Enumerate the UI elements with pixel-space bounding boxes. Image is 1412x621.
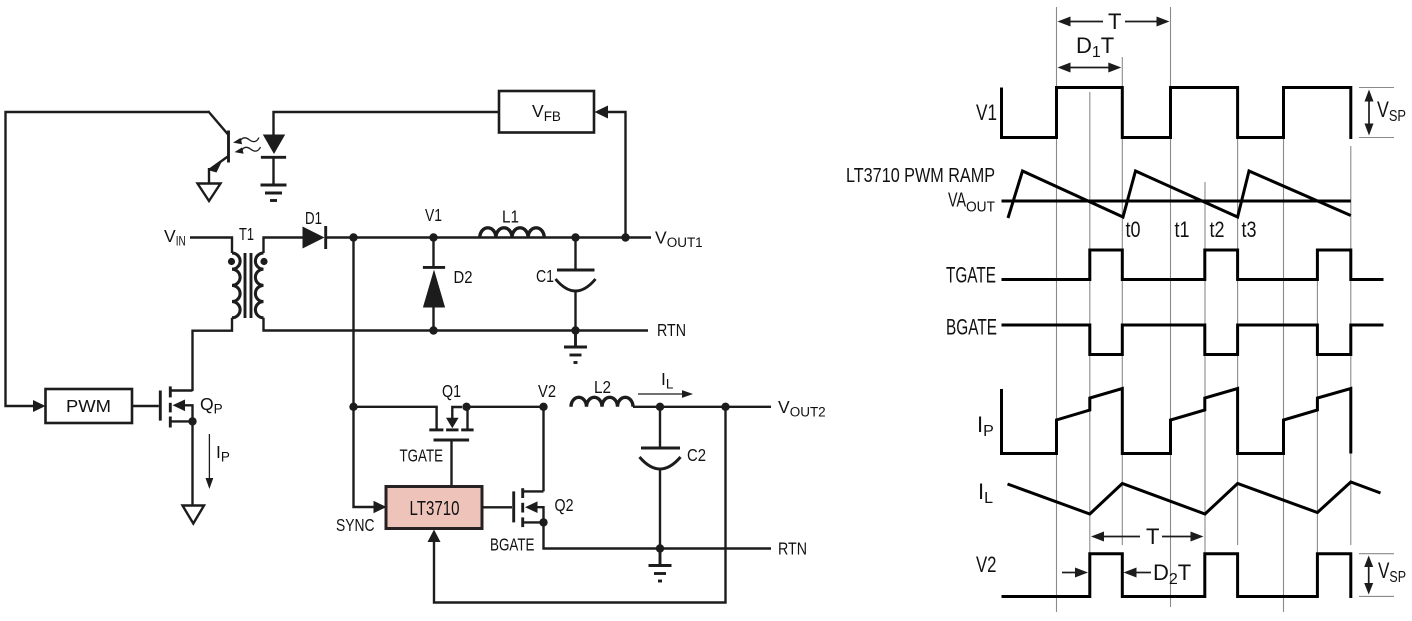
svg-text:V2: V2 [538,381,556,401]
wire LT3710 BGATE to Q2 gate [482,506,512,508]
svg-text:t1: t1 [1175,217,1190,242]
wire L2 to VOUT2 [633,406,771,408]
node Q2 source [539,518,547,526]
ground (bars) at LED cathode [261,185,287,201]
node D2 anode on RTN [429,326,437,334]
T1 core [244,253,247,318]
svg-text:D2: D2 [454,267,473,287]
LED D (opto diode) [261,135,286,185]
node V2 [539,403,547,411]
node VOUT2 sense [721,403,729,411]
diode D1 [303,226,326,249]
waveform VAOUT level line [1002,200,1351,203]
ground at C1 [564,331,587,363]
annotation arrow D1T (duty) [1058,33,1122,73]
transformer T1 [228,253,268,318]
transistor Qp (N-MOSFET) [160,386,192,427]
T1 primary winding [232,253,240,318]
ground (open triangle) at Qp [183,506,205,524]
svg-text:C2: C2 [687,445,706,465]
svg-text:RTN: RTN [657,320,686,340]
waveform PWM ramp sawtooth [1008,171,1351,218]
node Q1 body/source on rail [462,403,470,411]
arrow into PWM [33,400,46,412]
node second rail junction [349,403,357,411]
svg-text:L2: L2 [594,377,611,397]
diode D2 [423,238,445,331]
svg-text:T: T [1108,9,1121,34]
node V1 [429,233,437,241]
transistor Q2 (bottom switch N-MOSFET) [514,488,544,527]
T1 secondary winding [255,253,263,318]
svg-text:Q1: Q1 [442,381,461,401]
wire second rail to Q1 [354,406,438,408]
svg-text:C1: C1 [536,266,554,286]
node C1 bottom on RTN [571,326,579,334]
arrow into VFB right side [595,106,609,119]
box VFB [499,91,594,133]
svg-text:L1: L1 [502,207,519,227]
node C2 bottom on RTN2 [656,544,664,552]
svg-text:TGATE: TGATE [946,263,996,288]
annotation arrow T (V2 period) [1091,524,1204,549]
annotation arrow D2T [1124,560,1192,588]
svg-text:T1: T1 [239,224,254,244]
wire LED anode to top rail [274,112,500,135]
transistor Q1 (top switch P-MOSFET) [429,407,473,487]
annotation arrow into V2 pulse (left) [1062,568,1088,578]
wire main V1 rail D1 to VOUT1 [327,236,652,238]
waveform BGATE [1002,325,1384,355]
box LT3710 (IC U1) [386,487,482,529]
svg-text:T: T [1146,524,1159,549]
wire Q1 to V2 node [467,406,544,408]
svg-text:PWM: PWM [66,396,111,416]
wire RTN1 rail (secondary bottom to RTN) [264,318,649,331]
opto-transistor Q (photo-transistor) [208,111,229,183]
node C2 top [656,403,664,411]
capacitor C1 [556,238,596,331]
inductor L2 [571,397,633,406]
arrow feedback into LT3710 bottom [428,530,441,543]
node VFB tap [621,233,629,241]
svg-text:RTN: RTN [778,539,807,559]
wire VOUT1 to VFB [607,112,626,238]
svg-text:LT3710: LT3710 [410,497,460,520]
T1 phase dot secondary [260,258,267,265]
svg-text:t3: t3 [1242,217,1257,242]
box PWM [46,389,133,423]
node Qp source [188,417,196,425]
ground (open triangle) at opto emitter [198,184,221,202]
svg-text:BGATE: BGATE [490,535,535,555]
svg-text:BGATE: BGATE [946,315,997,340]
capacitor C2 [640,407,681,549]
wire VOUT2 feedback to LT3710 [434,407,726,603]
wire RTN2 rail [544,522,772,548]
guide grid vertical t-lines [1057,7,1351,612]
svg-text:V1: V1 [976,100,997,125]
waveform IP [1002,389,1351,454]
waveform IL [1008,482,1381,514]
waveform V1 [1002,88,1351,140]
waveform TGATE [1002,250,1384,280]
light coupling squiggle arrows [232,134,261,156]
svg-text:t2: t2 [1210,217,1225,242]
ground at C2 [649,549,672,582]
wire Qp source to ground [191,421,193,505]
svg-text:V2: V2 [976,552,997,577]
annotation arrow IL current [638,369,693,398]
annotation VSP (V2 swing) [1359,554,1406,597]
svg-text:TGATE: TGATE [400,446,444,466]
wire PWM to Qp gate [132,405,159,407]
annotation VSP (V1 swing) [1359,88,1406,138]
node L1 output / C1 top [571,233,579,241]
svg-text:SYNC: SYNC [336,515,375,535]
wire SYNC drop from D1 node [354,238,375,508]
wire VIN to transformer primary top [190,238,232,254]
annotation arrow T (top period) [1058,9,1170,34]
wire primary bottom to Qp drain [193,318,233,391]
wire secondary top to D1 anode [264,238,304,254]
node junction D1 output [349,233,357,241]
wire V2 down to Q2 drain [542,407,544,492]
svg-text:t0: t0 [1126,217,1141,242]
inductor L1 [480,228,544,238]
T1 phase dot primary [228,258,235,265]
svg-text:LT3710 PWM RAMP: LT3710 PWM RAMP [846,165,995,187]
arrow SYNC into LT3710 [374,501,387,514]
annotation arrow IP current [206,434,230,489]
svg-text:D1: D1 [305,208,322,228]
svg-text:V1: V1 [425,205,442,225]
waveform V2 [1002,554,1351,598]
wire top-left loop from opto collector to PWM input [6,112,209,406]
svg-text:Q2: Q2 [555,495,574,515]
